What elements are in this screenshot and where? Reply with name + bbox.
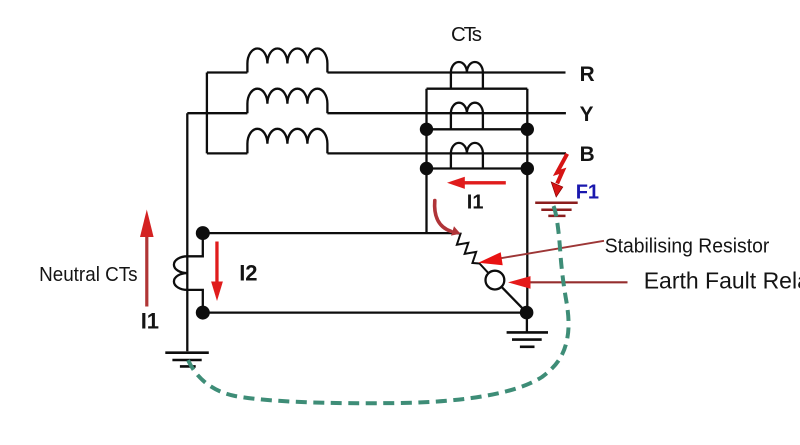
- svg-text:CTs: CTs: [451, 24, 482, 46]
- svg-text:Earth Fault Relay: Earth Fault Relay: [644, 267, 800, 293]
- svg-text:R: R: [580, 63, 595, 86]
- svg-text:Stabilising Resistor: Stabilising Resistor: [605, 235, 770, 257]
- svg-text:I2: I2: [239, 260, 257, 285]
- svg-text:I1: I1: [467, 192, 484, 214]
- svg-text:B: B: [580, 143, 595, 166]
- svg-text:Y: Y: [580, 103, 594, 126]
- svg-text:Neutral CTs: Neutral CTs: [39, 264, 138, 286]
- svg-text:I1: I1: [141, 309, 159, 334]
- svg-text:F1: F1: [576, 182, 599, 204]
